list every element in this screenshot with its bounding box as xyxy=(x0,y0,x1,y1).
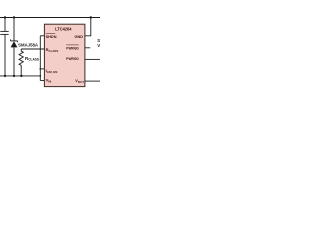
svg-text:GND: GND xyxy=(75,34,84,39)
svg-text:SHDN: SHDN xyxy=(46,34,57,39)
wire TVS diode bottom lead xyxy=(13,47,15,76)
svg-text:PWRGD: PWRGD xyxy=(66,56,79,61)
wire SHDN-ILIM-VIN vertical tie xyxy=(39,36,41,81)
node junction top rail / TVS diode xyxy=(13,16,15,18)
node junction top rail / GND wire xyxy=(90,16,92,18)
wire capacitor bottom lead xyxy=(4,34,6,76)
wire VIN pin stub xyxy=(40,80,44,82)
node junction vertical tie / ILIM_EN xyxy=(39,68,41,70)
wire TVS diode top lead xyxy=(13,18,15,41)
TVS diode D1 SMAJ58A xyxy=(10,39,17,47)
capacitor C1 xyxy=(0,31,8,34)
svg-text:SMAJ58A: SMAJ58A xyxy=(18,42,38,47)
wire VOUT out xyxy=(85,80,100,82)
node junction vertical tie / bus xyxy=(39,75,41,77)
svg-text:V: V xyxy=(97,43,100,48)
pin label SHDN xyxy=(46,33,57,39)
pin label PWRGD-bar xyxy=(66,45,79,51)
node junction top rail / capacitor xyxy=(4,16,6,18)
node junction bus / TVS diode xyxy=(13,75,15,77)
wire RCLASS pin wire xyxy=(21,48,44,50)
wire top rail xyxy=(0,17,100,19)
wire SHDN pin stub xyxy=(40,35,44,37)
wire ILIM_EN pin stub xyxy=(40,68,44,70)
node junction bus / capacitor xyxy=(4,75,6,77)
wire PWRGD out xyxy=(85,58,100,60)
wire PWRGD-bar stub xyxy=(85,47,90,49)
node junction bus / resistor xyxy=(20,75,22,77)
wire GND pin to top rail xyxy=(85,18,91,36)
wire bottom bus xyxy=(0,75,40,77)
svg-text:LTC4264: LTC4264 xyxy=(55,27,72,32)
svg-text:PWRGD: PWRGD xyxy=(66,45,79,50)
IC U1 LTC4264 body xyxy=(44,24,85,86)
resistor R1 RCLASS xyxy=(19,49,23,76)
wire capacitor top lead xyxy=(4,18,6,32)
